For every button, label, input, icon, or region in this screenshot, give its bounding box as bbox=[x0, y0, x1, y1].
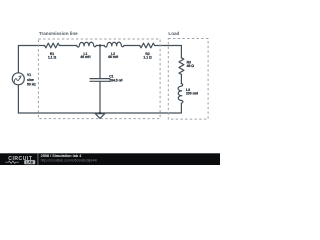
node B junction dot bottom bbox=[99, 112, 101, 114]
voltage source V1 sine arrow symbol bbox=[14, 78, 20, 83]
svg-text:sine: sine bbox=[27, 78, 34, 82]
svg-text:1.1 Ω: 1.1 Ω bbox=[48, 56, 57, 60]
transmission line dashed box bbox=[38, 39, 160, 119]
wire L3 to bottom rail bbox=[18, 103, 181, 113]
inductor L3 bbox=[178, 84, 183, 104]
load dashed box bbox=[168, 39, 208, 120]
capacitor C1 top lead bbox=[99, 46, 101, 79]
svg-text:48 Ω: 48 Ω bbox=[187, 64, 195, 68]
inductor L1 bbox=[77, 42, 97, 47]
wire V1 bottom lead bbox=[17, 85, 19, 113]
footer logo LAB box bbox=[24, 160, 35, 164]
wire L1 to node bbox=[96, 45, 104, 47]
resistor R1 bbox=[45, 43, 60, 48]
inductor L2 bbox=[104, 42, 124, 47]
node A junction dot top bbox=[99, 44, 101, 46]
svg-text:LAB: LAB bbox=[26, 160, 34, 164]
svg-text:C1: C1 bbox=[109, 74, 113, 78]
ground bbox=[95, 114, 105, 119]
footer logo resistor zigzag bbox=[5, 161, 19, 163]
svg-text:200 mH: 200 mH bbox=[186, 92, 199, 96]
capacitor C1 bottom lead bbox=[99, 81, 101, 113]
capacitor C1 plates bbox=[90, 79, 110, 82]
svg-text:V1: V1 bbox=[27, 73, 31, 77]
svg-text:48 mH: 48 mH bbox=[108, 55, 119, 59]
svg-text:2508 / Simulation lab 4: 2508 / Simulation lab 4 bbox=[41, 154, 83, 158]
voltage source V1 circle bbox=[12, 73, 24, 85]
svg-text:Transmission line: Transmission line bbox=[39, 31, 78, 36]
wire R1 to L1 bbox=[59, 45, 76, 47]
svg-text:50 Hz: 50 Hz bbox=[27, 83, 36, 87]
wire L2 to R2 bbox=[124, 45, 140, 47]
footer bar bbox=[0, 153, 220, 165]
svg-text:http://circuitlab.com/c/6cmdbc: http://circuitlab.com/c/6cmdbc9lpi44/ bbox=[41, 159, 97, 163]
wire R3 to L3 bbox=[180, 75, 182, 84]
wire R2 to load corner bbox=[155, 46, 182, 58]
svg-text:Load: Load bbox=[168, 31, 179, 36]
svg-text:48 mH: 48 mH bbox=[80, 55, 91, 59]
resistor R3 bbox=[179, 58, 184, 75]
svg-text:1.1 Ω: 1.1 Ω bbox=[143, 56, 152, 60]
wire top rail left bbox=[18, 46, 44, 73]
svg-text:284.5 nF: 284.5 nF bbox=[109, 79, 123, 83]
resistor R2 bbox=[140, 43, 155, 48]
footer separator bbox=[37, 153, 40, 165]
